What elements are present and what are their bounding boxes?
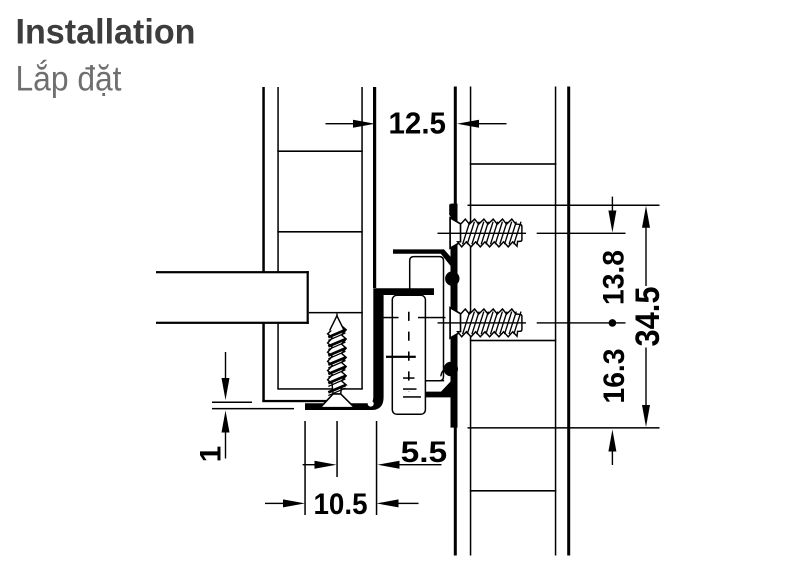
dim 1 upper ext line — [212, 402, 252, 404]
svg-text:Lắp đặt: Lắp đặt — [16, 59, 122, 99]
bend notch white arc — [368, 401, 374, 407]
bracket top flange — [393, 249, 456, 271]
left panel bottom rung — [277, 388, 363, 390]
right panel inner-right line — [555, 87, 557, 556]
right panel rung 3 — [470, 340, 557, 342]
bracket band with bottom flange and top bar — [305, 288, 434, 410]
bottom ext line A (flange tip) — [304, 421, 306, 515]
right panel rung 1 — [470, 163, 557, 165]
left panel right-face thick line — [373, 87, 376, 288]
dim 1 lower ext line — [212, 408, 294, 410]
horizontal screw 2 — [450, 308, 522, 338]
left panel partial rung at drawer bar level — [309, 312, 363, 314]
hidden line lower — [386, 356, 416, 358]
housing small dash c — [403, 396, 421, 398]
left panel outer-left line — [262, 87, 265, 401]
dim 34.5 line upper — [645, 227, 646, 286]
cabinet runner mounting plate — [451, 204, 458, 428]
vertical screw center line above tip — [336, 314, 337, 324]
dim 10.5 left arrow — [283, 499, 305, 507]
dim 12.5 right arrow — [457, 120, 479, 128]
hidden line at screw2 level left segment — [383, 317, 399, 319]
drawer bar bottom edge — [156, 322, 309, 324]
bottom ext line C (band) — [376, 421, 378, 515]
drawer bar right edge — [307, 271, 309, 324]
dim 5.5 right arrow — [378, 461, 400, 469]
extension line top (34.5 upper reference, through panel) — [468, 205, 660, 207]
right panel inner-left line — [470, 87, 472, 556]
housing small dash a — [403, 377, 415, 379]
svg-text:1: 1 — [195, 446, 228, 462]
svg-text:12.5: 12.5 — [389, 107, 447, 141]
hook arc near rivet 2 — [441, 369, 445, 376]
upper housing rounded rect — [410, 257, 444, 381]
dim 10.5 right arrow — [377, 499, 399, 507]
extension line bottom (34.5 lower reference, through panel) — [468, 427, 660, 429]
drawer bar top edge — [156, 271, 309, 273]
plate top hook — [449, 204, 457, 219]
dim 34.5 down arrow — [642, 405, 650, 427]
drawer bar white fill — [156, 272, 308, 323]
lower housing rounded rect — [392, 295, 425, 414]
hidden line at screw2 level right segment — [418, 317, 446, 319]
svg-text:34.5: 34.5 — [629, 287, 667, 347]
dim 1 down arrow — [222, 378, 230, 400]
svg-text:Installation: Installation — [16, 12, 196, 52]
dim 13.8 down arrow — [608, 211, 616, 233]
screw2 center extension right — [537, 322, 626, 323]
screw1 center extension right — [537, 233, 626, 234]
dim dot at screw2 level — [609, 319, 617, 327]
dim 16.3 up arrow — [608, 430, 616, 452]
dim 34.5 line lower — [645, 348, 646, 406]
housing small dash b — [403, 388, 417, 390]
screw1 center line left part — [438, 233, 527, 234]
svg-text:16.3: 16.3 — [598, 349, 631, 404]
left panel bottom edge — [262, 400, 331, 402]
svg-text:10.5: 10.5 — [314, 488, 368, 521]
dim 5.5 left arrow — [315, 461, 337, 469]
rivet bump 2 — [444, 362, 458, 376]
housing dashed axis — [408, 312, 410, 392]
left panel rung 1 — [277, 150, 363, 152]
horizontal screw 1 — [450, 218, 522, 248]
left panel inner-left line — [277, 87, 279, 389]
dim 34.5 up arrow — [642, 206, 650, 228]
vertical screw body — [320, 316, 354, 408]
bottom ext line B (screw axis) — [336, 421, 338, 477]
right panel left-face thick line — [454, 87, 457, 556]
right panel rung 5 — [470, 490, 557, 492]
left panel inner-right line — [361, 87, 363, 389]
dim 12.5 left arrow — [353, 120, 375, 128]
right panel right-face thick line — [567, 87, 570, 556]
bracket lower arm thin top edge — [426, 380, 445, 381]
svg-text:13.8: 13.8 — [598, 250, 631, 305]
bracket lower arm — [426, 381, 458, 398]
left panel rung 2 — [277, 231, 363, 233]
dim 1 up arrow — [222, 411, 230, 433]
screw2 center line left part — [438, 322, 527, 323]
rivet bump 1 — [445, 271, 459, 285]
